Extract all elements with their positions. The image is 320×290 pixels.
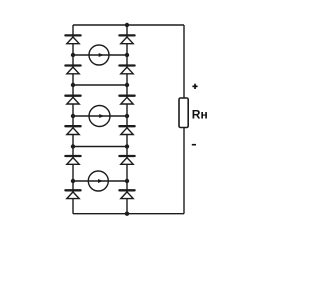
resistor Rn body	[179, 98, 188, 128]
wire bridge link 2	[73, 146, 127, 148]
diode D9 right	[119, 96, 134, 104]
junction dot left A2	[71, 114, 75, 118]
diode D11 right	[119, 156, 134, 164]
junction dot right A1	[125, 53, 129, 57]
wire right column	[126, 25, 128, 214]
diode D6 left bottom	[65, 190, 80, 198]
junction dot right B1	[125, 83, 129, 87]
junction dot left B1	[71, 83, 75, 87]
diode D10 right	[119, 126, 134, 134]
wire bottom rail	[73, 213, 184, 215]
current source G2	[89, 106, 110, 127]
wire source row 2	[73, 115, 127, 117]
junction dot right A2	[125, 114, 129, 118]
diode D2 left	[65, 66, 80, 74]
svg-text:Rн: Rн	[192, 107, 208, 121]
label plus	[192, 84, 197, 89]
wire bridge link 1	[73, 84, 127, 86]
junction dot right top	[125, 23, 129, 27]
diode D7 right top	[119, 35, 134, 43]
wire right rail lower	[183, 128, 185, 214]
label minus	[192, 144, 196, 146]
junction dot left A1	[71, 53, 75, 57]
diode D4 left	[65, 126, 80, 134]
diode D8 right	[119, 66, 134, 74]
label Rn value	[192, 107, 208, 121]
wire left column	[72, 25, 74, 214]
diode D3 left	[65, 96, 80, 104]
junction dot right A3	[125, 179, 129, 183]
wire top rail	[73, 24, 184, 26]
junction dot left B2	[71, 144, 75, 148]
wire source row 1	[73, 54, 127, 56]
diode D5 left	[65, 156, 80, 164]
current source G1	[89, 45, 109, 65]
junction dot left A3	[71, 179, 75, 183]
diode D12 right bottom	[119, 190, 134, 198]
current source G3	[88, 171, 108, 191]
junction dot right B2	[125, 144, 129, 148]
junction dot right bottom	[125, 212, 129, 216]
wire right rail upper	[183, 25, 185, 98]
diode D1 left top	[65, 35, 80, 43]
wire source row 3	[73, 180, 127, 182]
